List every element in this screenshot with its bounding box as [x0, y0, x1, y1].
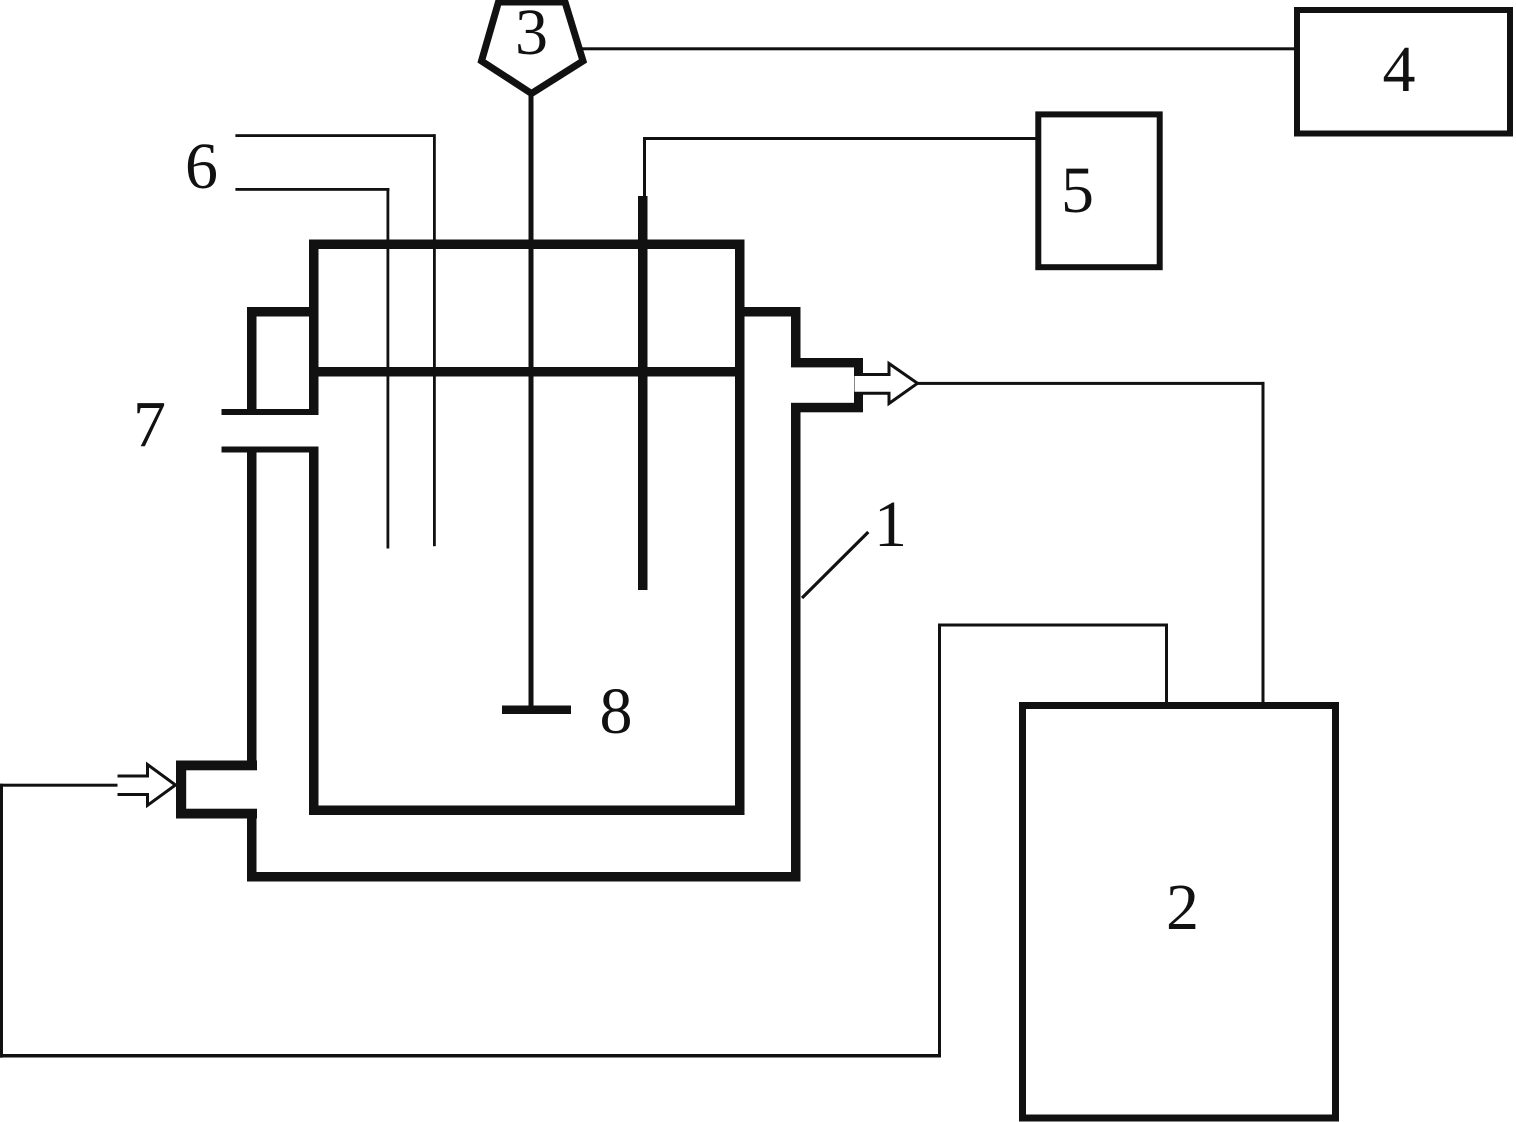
tube A (lower leader, label 6) — [235, 188, 389, 549]
inlet port (jacket left, bottom) — [176, 761, 257, 819]
svg-text:7: 7 — [133, 388, 166, 461]
jacket left wall (port 7 to inlet port) — [247, 447, 257, 761]
svg-text:5: 5 — [1061, 154, 1094, 227]
svg-text:8: 8 — [600, 675, 633, 748]
svg-text:4: 4 — [1383, 33, 1416, 106]
inner vessel bottom — [309, 806, 745, 816]
leader line for label 1 — [802, 532, 868, 598]
tube B (upper leader, label 6) — [235, 134, 435, 546]
jacket bottom — [247, 872, 801, 882]
jacket top right segment — [735, 307, 801, 317]
port 7 upper line — [222, 409, 316, 415]
stirrer shaft — [529, 94, 534, 707]
jacket left wall (top to port 7) — [247, 307, 257, 415]
box 5 — [1038, 114, 1159, 267]
inner vessel flange line — [309, 367, 745, 377]
inner vessel right wall — [735, 240, 745, 816]
box 4 — [1297, 10, 1510, 134]
jacket top left segment — [247, 307, 319, 317]
stirrer paddle 8 — [502, 706, 571, 715]
jacket left wall (below inlet port) — [247, 819, 257, 882]
inner vessel lid — [309, 240, 745, 250]
wire from outlet arrow to box 2 top — [918, 382, 1265, 703]
outlet flow arrow — [855, 364, 918, 404]
motor 3 (pentagon) — [482, 2, 584, 94]
outlet port (jacket right) — [791, 358, 863, 412]
wire loop: box 2 top, left, bottom, up to inlet arrow — [0, 624, 1168, 1058]
electrode (to box 5) — [638, 196, 648, 590]
inner vessel left wall (above port 7) — [309, 240, 319, 416]
inlet flow arrow — [118, 765, 176, 806]
jacket right wall (below outlet port) — [791, 412, 801, 882]
inner vessel left wall (below port 7) — [309, 447, 319, 816]
wire from motor 3 to box 4 — [578, 47, 1294, 50]
port 7 lower line — [222, 447, 316, 453]
svg-text:6: 6 — [185, 130, 218, 203]
box 2 — [1023, 706, 1336, 1119]
svg-text:3: 3 — [515, 0, 548, 69]
wire from box 5 down-left to electrode top — [643, 137, 1036, 196]
svg-text:2: 2 — [1166, 871, 1199, 944]
jacket right wall (top to outlet port) — [791, 307, 801, 359]
svg-text:1: 1 — [874, 488, 907, 561]
